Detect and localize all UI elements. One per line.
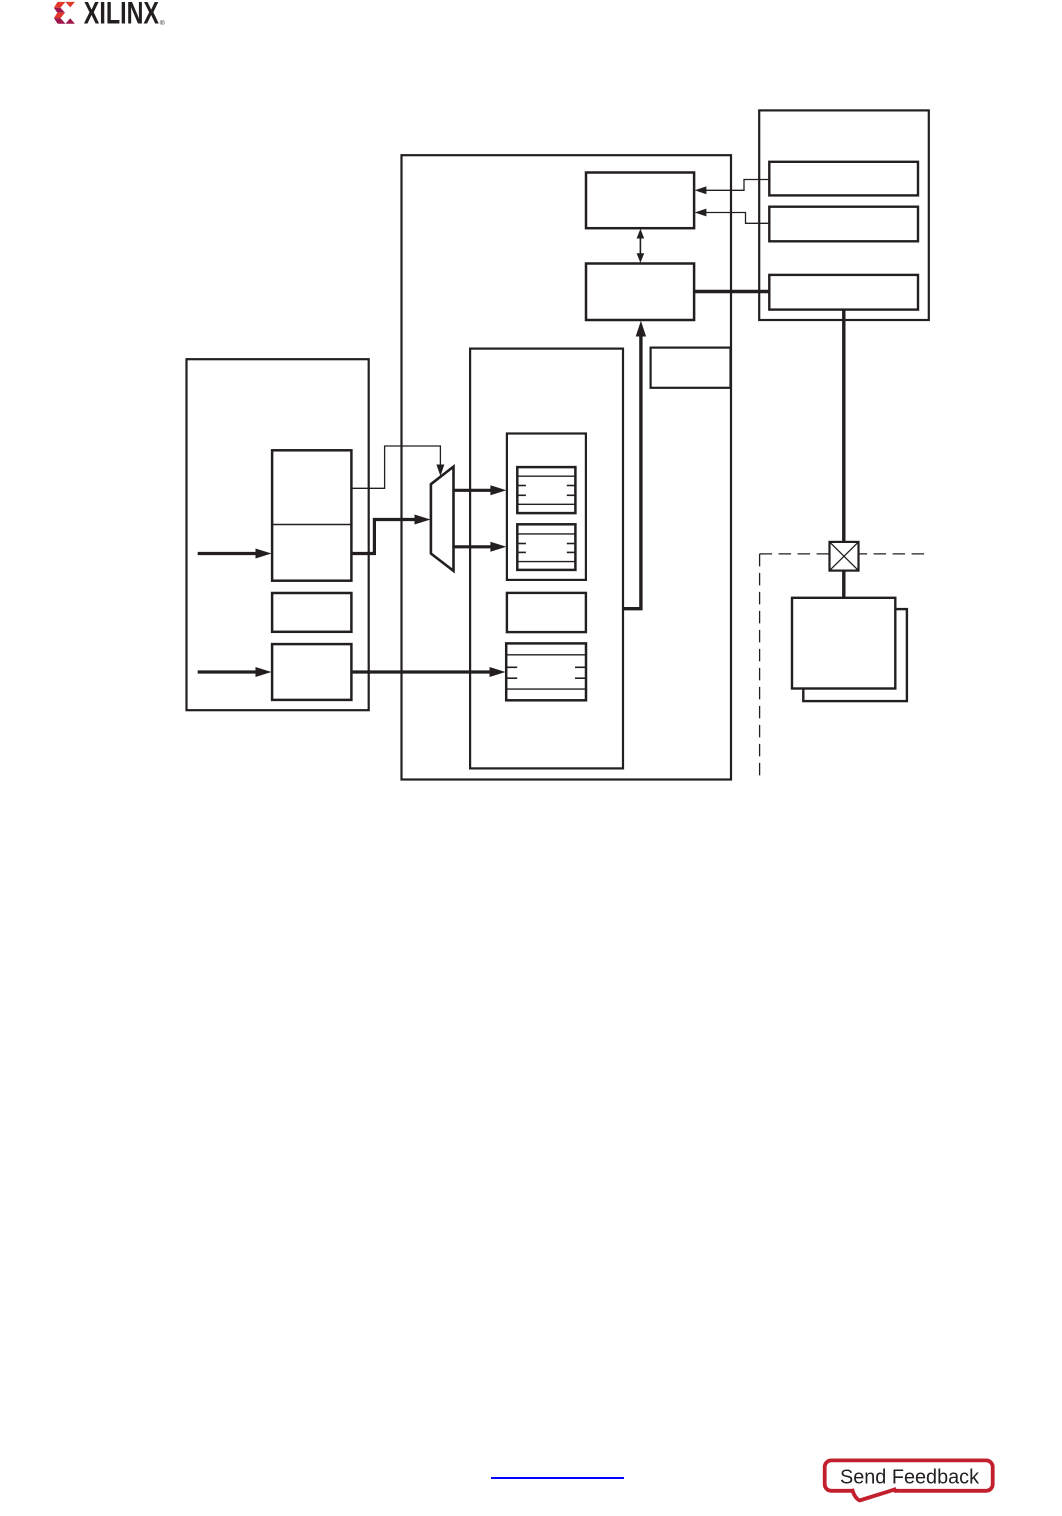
block diagram (0, 0, 1062, 840)
wire: left bottom block to fifo 3 (351, 667, 505, 677)
logo wordmark XILINX (84, 0, 159, 31)
right register rect 2 (769, 207, 918, 242)
left small block (272, 593, 351, 632)
logo icon red top-right triangle (65, 2, 75, 8)
block B (below A) (586, 264, 694, 321)
svg-text:Send Feedback: Send Feedback (840, 1465, 980, 1488)
logo icon maroon band 4 (54, 18, 66, 24)
wire: pad down to memory stack (842, 571, 845, 598)
input arrow 1 (into stacked block) (198, 549, 272, 559)
wire: thin line from register rect 2 to block A (695, 209, 770, 224)
right container box (759, 110, 929, 320)
right register rect 1 (769, 162, 918, 196)
io pad (crossed square) (830, 542, 859, 571)
send feedback button (810, 1448, 1010, 1510)
block D (small box under fifo wrapper) (507, 593, 586, 632)
left stacked block (two compartments) (272, 450, 351, 580)
memory stack back sheet (803, 609, 907, 701)
wire: return path from sub container up to block B (623, 321, 646, 609)
logo icon maroon bottom-right triangle (66, 18, 75, 24)
dashed boundary (left edge) (759, 554, 761, 781)
right register rect 3 (769, 275, 918, 310)
block A (top) (586, 173, 694, 229)
fifo wrapper box (507, 434, 586, 580)
wire: block B to register rect 3 (thick) (694, 290, 769, 293)
fifo 1 (517, 467, 575, 513)
registered trademark (160, 19, 165, 27)
input arrow 2 (into left bottom block) (198, 667, 272, 677)
block C (small, right edge on container) (651, 348, 731, 388)
double-headed arrow between A and B (637, 229, 645, 263)
sub container box (470, 349, 623, 769)
wire: register rect 3 down to pad (thick vertical) (842, 310, 845, 542)
wire: mux output to fifo 1 (454, 485, 507, 495)
logo icon red chevron band 1 (54, 2, 66, 8)
left container box (187, 359, 369, 710)
wire: mux output to fifo 2 (454, 542, 507, 552)
memory stack front sheet (792, 598, 895, 689)
logo icon maroon band 2 (54, 8, 65, 13)
central container box (402, 155, 732, 779)
fifo 2 (517, 524, 575, 570)
dashed boundary (top edge) (760, 553, 930, 555)
logo icon red band 3 (54, 13, 65, 18)
wire: thin line from register rect 1 to block A (695, 180, 770, 195)
left bottom block (272, 644, 351, 700)
wire: data from stacked block to mux (thick, stepped) (351, 515, 430, 554)
wire: select line from stacked block to mux (thin, stepped) (351, 446, 444, 488)
fifo 3 (wide, bottom) (506, 643, 586, 700)
hyperlink underline (bottom center-left) (491, 1477, 624, 1479)
mux trapezoid (431, 467, 454, 571)
Xilinx logo (0, 0, 200, 40)
